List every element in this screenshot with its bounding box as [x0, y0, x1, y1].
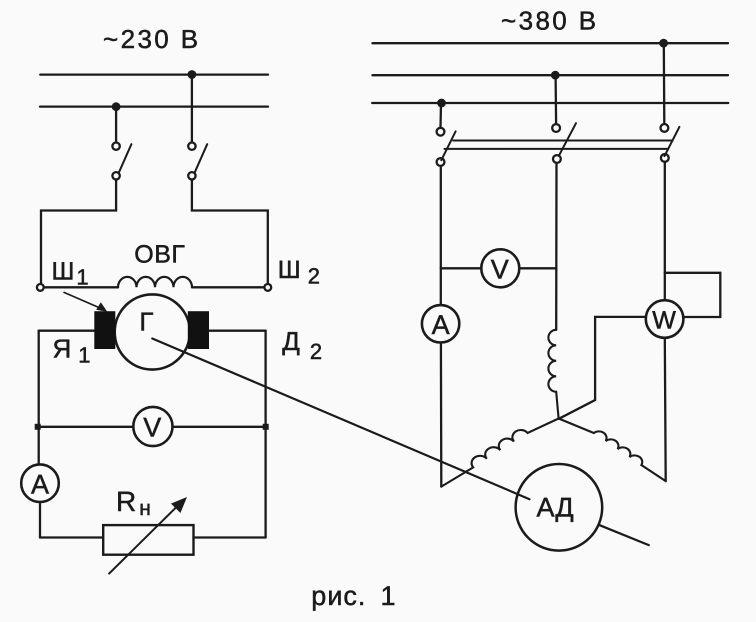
svg-text:Ш2: Ш2: [278, 256, 320, 289]
wire bottom left: [40, 536, 103, 538]
shaft line G to AD (segment 1): [152, 339, 529, 500]
node junction dot right (V tap): [263, 424, 269, 430]
wire W left to star point: [559, 317, 646, 419]
wire stub bus B down: [554, 75, 557, 124]
switch blade 1: [441, 131, 455, 160]
brush right (black): [188, 311, 209, 349]
stator winding phase 2 (vertical coil): [548, 330, 558, 419]
wire bus L2 (230V bottom line): [40, 105, 268, 107]
node junction dot on L1: [188, 70, 197, 79]
wire bus L1 (230V top line): [40, 73, 268, 75]
wire armature left: [39, 330, 95, 332]
wire bus C (380V line 3): [372, 102, 728, 104]
wire V right: [173, 426, 266, 428]
wire switch S2 to terminal Sh2: [192, 180, 268, 285]
terminal Sh1: [37, 284, 44, 291]
wire bus A (380V line 1): [373, 42, 729, 44]
svg-text:~230 В: ~230 В: [103, 24, 201, 54]
wire stub from L2 to switch S1: [115, 107, 117, 143]
switch S2: [188, 143, 207, 180]
svg-text:АД: АД: [537, 493, 574, 523]
svg-text:V: V: [143, 413, 161, 443]
wire below A: [39, 502, 41, 538]
wire stub from L1 to switch S2: [191, 75, 193, 143]
svg-text:1: 1: [381, 581, 396, 611]
motor AD circle: [516, 464, 603, 551]
inductor OVG field winding: [118, 277, 192, 287]
ammeter A2: [422, 305, 459, 342]
switch blade 2: [559, 123, 576, 156]
stator winding left (to phase 1): [441, 419, 558, 487]
svg-text:A: A: [432, 310, 450, 340]
svg-text:~380 В: ~380 В: [501, 6, 599, 36]
node junction dot bus C: [437, 99, 446, 108]
wire bottom right: [194, 536, 266, 538]
switch blade 3: [665, 127, 680, 156]
brush left (black): [94, 311, 115, 349]
wire V2 right: [519, 267, 556, 269]
switch bar upper line: [453, 140, 672, 142]
node junction dot bus A: [659, 39, 668, 48]
wire Sh1 to coil: [44, 286, 118, 288]
wire phase 3 upper: [664, 162, 666, 300]
wire phase 1 below A2: [440, 343, 443, 487]
svg-text:рис.: рис.: [311, 581, 366, 611]
wire W voltage loop right: [665, 273, 721, 317]
voltmeter V2: [481, 249, 519, 287]
wire V left: [39, 426, 134, 428]
switch bar lower line: [445, 148, 668, 150]
wire phase 1 upper: [440, 166, 442, 305]
svg-text:Я1: Я1: [53, 334, 91, 368]
svg-text:W: W: [652, 306, 676, 334]
wire phase 2: [555, 163, 558, 330]
pointer arrow from Sh1 to brush: [64, 292, 107, 312]
wire armature right: [209, 330, 266, 332]
node junction dot on L2: [112, 102, 121, 111]
node junction dot bus B: [551, 71, 560, 80]
ammeter A1: [21, 464, 59, 502]
wire switch S1 to terminal Sh1: [41, 180, 116, 285]
voltmeter V1: [133, 407, 172, 446]
wire left vertical (armature loop): [38, 331, 40, 465]
wire phase 3 below W: [664, 338, 667, 481]
resistor Rn body: [103, 525, 193, 555]
svg-text:ОВГ: ОВГ: [134, 241, 185, 269]
wattmeter W: [646, 300, 684, 338]
generator G circle: [115, 294, 190, 369]
wire coil to Sh2: [192, 286, 264, 288]
terminal Sh2: [264, 284, 271, 291]
svg-text:A: A: [31, 470, 49, 500]
svg-text:Г: Г: [139, 306, 153, 336]
wire V2 left: [441, 267, 482, 269]
stator winding right (to phase 3): [559, 419, 666, 482]
switch S1: [112, 143, 131, 180]
wire stub bus C down: [439, 103, 442, 128]
svg-text:V: V: [491, 255, 509, 285]
svg-text:Ш1: Ш1: [52, 258, 89, 290]
arrow of variable resistor Rn: [109, 497, 187, 574]
three-pole switch QS: [437, 123, 680, 166]
svg-text:Rн: Rн: [116, 486, 151, 520]
node junction dot left (V tap): [35, 424, 41, 430]
wire bus B (380V line 2): [373, 74, 729, 76]
shaft line through AD (segment 2): [599, 525, 649, 545]
svg-text:Д2: Д2: [282, 326, 322, 364]
wire stub bus A down: [663, 43, 666, 124]
wire right vertical (armature loop): [264, 331, 266, 538]
